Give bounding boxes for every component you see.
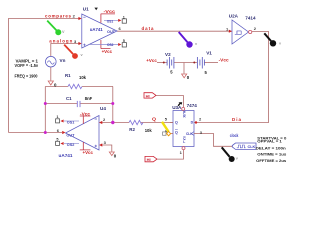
wire U2A output to right rail: [252, 32, 269, 123]
svg-text:R1: R1: [65, 73, 71, 78]
svg-text:L: L: [183, 140, 185, 144]
svg-text:5: 5: [123, 39, 125, 43]
svg-text:+Vcc: +Vcc: [102, 49, 113, 54]
ground 0 (U4 pin3): [109, 152, 117, 159]
U1 pin OS1: [104, 15, 126, 23]
junction dot C1-right: [111, 102, 114, 105]
svg-text:clock: clock: [230, 133, 239, 138]
U1 pin OS2: [90, 39, 126, 47]
wire compares net (left rail + top row): [9, 19, 80, 133]
svg-text:OUT: OUT: [107, 30, 116, 34]
svg-text:HI: HI: [147, 157, 151, 162]
ground 0 (middle): [182, 74, 190, 80]
wire +Vcc to V2: [157, 62, 167, 64]
svg-text:VOFF = -1.5v: VOFF = -1.5v: [15, 63, 39, 68]
svg-text:1: 1: [56, 115, 58, 119]
wire CLR net: [157, 150, 184, 159]
wire U4 pin3 to ground: [102, 145, 112, 152]
U3A PRE bubble: [182, 107, 185, 110]
op-amp U4 (mirrored): [56, 106, 107, 158]
wire V1 to -Vcc: [204, 62, 218, 64]
svg-text:U3A: U3A: [172, 105, 182, 110]
wire integrator output row: [9, 132, 63, 134]
U2A pin1 arrow: [229, 30, 232, 33]
cursor arrow near U3A: [178, 102, 183, 106]
svg-text:OS1: OS1: [67, 120, 75, 124]
U4 pin2 arrow: [99, 121, 102, 124]
svg-text:5: 5: [56, 138, 58, 142]
source Vn (VSIN): [46, 56, 66, 67]
wire C1 row: [45, 103, 113, 105]
svg-text:U4: U4: [100, 106, 106, 111]
svg-text:ONTIME = 1us: ONTIME = 1us: [257, 152, 287, 157]
svg-text:uA741: uA741: [90, 27, 104, 32]
svg-text:U1: U1: [83, 7, 89, 12]
svg-text:-Vcc: -Vcc: [219, 58, 230, 63]
svg-text:OUT: OUT: [66, 133, 75, 137]
svg-text:Q: Q: [175, 131, 178, 135]
svg-text:compares: compares: [45, 14, 72, 19]
svg-text:10k: 10k: [145, 128, 153, 133]
U4 output pin6 arrow: [62, 131, 65, 134]
svg-text:10k: 10k: [79, 75, 87, 80]
svg-text:OPPVAL = 1: OPPVAL = 1: [257, 139, 282, 144]
probe green (compares): [47, 21, 65, 36]
resistor R1: [65, 73, 87, 89]
svg-text:V1: V1: [206, 51, 212, 56]
junction dot V1 lead: [193, 62, 195, 64]
U3A pin3 stub: [194, 133, 198, 135]
U3A pin6 stub: [170, 133, 173, 135]
inverter U2A 7414: [226, 13, 257, 44]
junction dot summing-node: [111, 121, 114, 124]
junction dot C1-left: [44, 102, 47, 105]
U1 power pin V+ with -Vcc symbol: [101, 14, 115, 23]
U4 pin OS2 (mirrored): [56, 138, 79, 147]
svg-text:analogn: analogn: [49, 39, 72, 44]
U4 pin OS1 (mirrored): [56, 115, 79, 124]
svg-text:C1: C1: [66, 96, 72, 101]
svg-text:Vn: Vn: [60, 58, 66, 63]
flip-flop U3A 7474: [165, 103, 203, 155]
wire clock net: [198, 134, 234, 147]
wire analogn net: [51, 44, 80, 57]
U2A output bubble: [249, 30, 252, 33]
junction dot output-row: [44, 131, 47, 134]
probe black (7414 output): [264, 33, 282, 46]
marker diamond (Qbar pin): [167, 131, 171, 135]
svg-text:uA741: uA741: [59, 153, 74, 158]
U1 power pin V- with +Vcc symbol: [101, 40, 111, 49]
U3A pin5 stub: [170, 122, 173, 124]
wire summing row to R2 and FF: [100, 122, 174, 124]
svg-text:R2: R2: [129, 127, 135, 132]
svg-text:OS2: OS2: [67, 143, 75, 147]
U4 power V+ with -Vcc symbol: [80, 116, 91, 124]
probe black (clock): [222, 147, 239, 162]
svg-text:7414: 7414: [245, 16, 256, 21]
svg-text:OS1: OS1: [107, 19, 114, 23]
wire Vn ground stub: [50, 67, 52, 81]
svg-text:+Vcc: +Vcc: [83, 150, 94, 155]
U4 pin3 arrow: [99, 143, 102, 146]
capacitor C1: [66, 96, 93, 107]
U3A pin2 stub: [194, 122, 198, 124]
svg-text:DELAY = 100n: DELAY = 100n: [256, 145, 287, 150]
svg-text:Dia: Dia: [232, 117, 242, 122]
svg-text:D: D: [191, 121, 194, 125]
wire mid ground stub: [183, 63, 185, 74]
svg-text:FREQ = 1900: FREQ = 1900: [15, 73, 38, 78]
U3A pin2 end dot: [195, 121, 197, 123]
U2A hysteresis glyph: [235, 31, 241, 34]
U1 pin3 arrow: [78, 42, 81, 45]
digital HI tag (PRE): [144, 93, 156, 99]
wire R1/C1 left rail: [44, 87, 46, 133]
svg-text:OFFTIME = 2us: OFFTIME = 2us: [256, 158, 287, 163]
probe purple (data): [179, 32, 198, 48]
svg-text:HI: HI: [146, 94, 150, 99]
cursor arrow near U1: [94, 8, 98, 11]
digital stimulus DSTM CLK: [232, 143, 256, 149]
junction dot V2 lead: [163, 62, 165, 64]
svg-text:V2: V2: [165, 52, 171, 57]
svg-text:1: 1: [123, 15, 125, 19]
U3A CLR bubble: [182, 147, 185, 150]
svg-text:data: data: [142, 26, 155, 31]
svg-text:+Vcc: +Vcc: [146, 58, 157, 63]
battery V2: [165, 52, 174, 75]
yellow pending wire (Q row to Qbar pin): [162, 122, 169, 132]
digital HI tag (CLR): [145, 156, 157, 162]
svg-text:-Vcc: -Vcc: [80, 111, 91, 116]
wire PRE net: [156, 96, 183, 108]
svg-text:CLK: CLK: [248, 145, 256, 149]
svg-text:8nF: 8nF: [85, 96, 93, 101]
U4 power V- with +Vcc symbol: [80, 142, 91, 150]
wire summing rail: [112, 87, 114, 123]
svg-text:U2A: U2A: [229, 13, 239, 18]
probe red (analogn): [64, 45, 83, 59]
resistor R2: [129, 120, 152, 133]
svg-text:Q: Q: [152, 117, 157, 122]
wire data net (U1 out to U2A in): [117, 30, 232, 32]
U1 pin2 arrow: [78, 17, 81, 20]
wire R1 row: [45, 86, 113, 88]
wire V2 to V1: [174, 62, 198, 64]
svg-text:Q: Q: [175, 121, 178, 125]
battery V1: [197, 51, 212, 75]
svg-text:-Vcc: -Vcc: [104, 9, 116, 14]
ground 0 (under Vn): [48, 81, 57, 88]
op-amp U1: [78, 7, 126, 54]
svg-text:OS2: OS2: [107, 43, 114, 47]
svg-text:7474: 7474: [187, 103, 198, 108]
selection handle square (yellow wire): [163, 132, 166, 135]
wire Dia net: [198, 122, 269, 124]
